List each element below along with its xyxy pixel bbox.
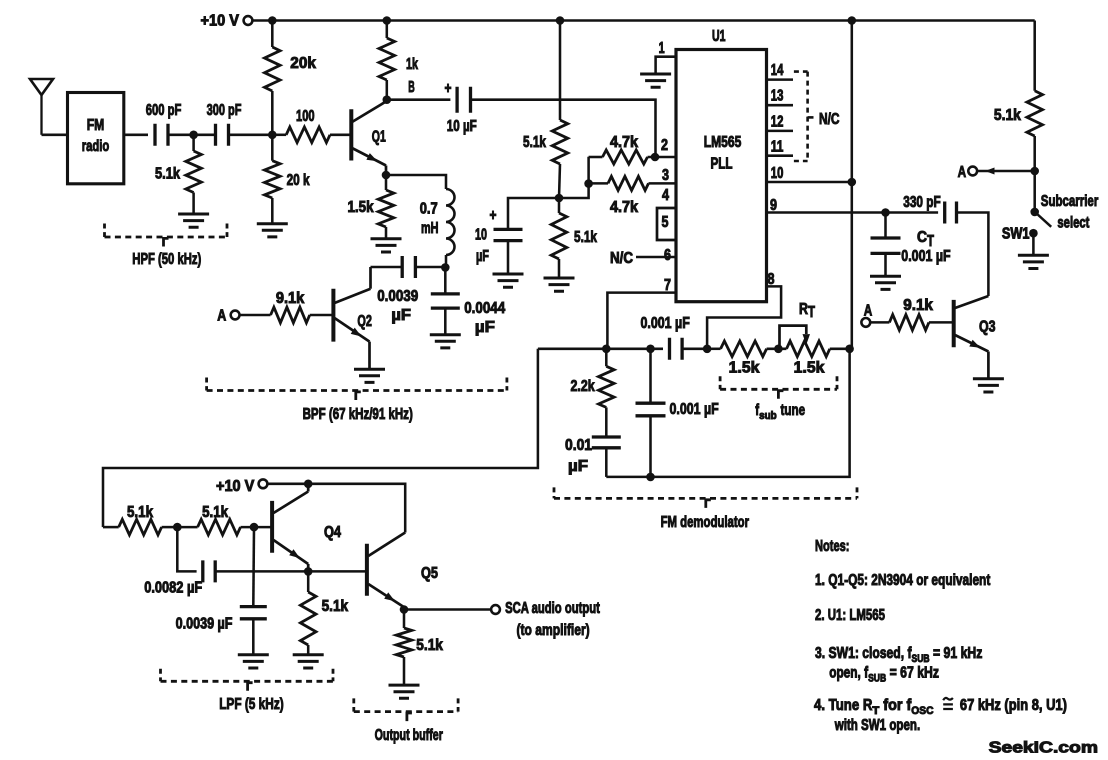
svg-text:5.1k: 5.1k [322, 598, 349, 615]
svg-text:5.1k: 5.1k [994, 107, 1021, 124]
wire node B to C10uF [387, 98, 451, 101]
svg-text:7: 7 [664, 277, 671, 294]
label subcarrier select [1041, 193, 1099, 232]
pin 11 [767, 139, 794, 156]
svg-text:T: T [808, 304, 815, 321]
svg-text:5: 5 [662, 214, 669, 231]
svg-text:0.001 µF: 0.001 µF [901, 248, 950, 265]
svg-text:Subcarrier: Subcarrier [1041, 193, 1099, 210]
op-amp U1 LM565 box [676, 28, 767, 302]
wire emitter row to inductor [386, 175, 446, 189]
resistor 5.1k Q4 emitter [300, 571, 348, 654]
terminal A Q3 [861, 303, 872, 327]
wire antenna to FM radio [42, 134, 68, 137]
resistor 2.2k [571, 349, 615, 437]
svg-text:4. Tune RT for fOSC: 4. Tune RT for fOSC [814, 697, 934, 717]
svg-text:2.2k: 2.2k [571, 378, 596, 395]
wire demod cap to pin8 node [682, 348, 707, 351]
junction pin8 node [703, 345, 712, 354]
svg-text:1k: 1k [406, 56, 418, 73]
svg-text:1.5k: 1.5k [729, 360, 760, 377]
svg-text:5.1k: 5.1k [155, 166, 180, 183]
svg-text:9.1k: 9.1k [276, 290, 305, 307]
svg-text:radio: radio [82, 138, 110, 155]
junction LPF node1 [173, 523, 182, 532]
wire divider to 4.7k pair [559, 157, 589, 198]
svg-text:SeekIC.com: SeekIC.com [989, 740, 1098, 757]
svg-text:0.0039: 0.0039 [377, 288, 418, 305]
svg-text:67 kHz (pin 8, U1): 67 kHz (pin 8, U1) [960, 697, 1067, 714]
svg-text:3: 3 [662, 167, 669, 184]
svg-text:9: 9 [770, 197, 777, 214]
ground Q3 [973, 379, 1004, 392]
svg-text:Q5: Q5 [421, 565, 438, 582]
svg-text:10: 10 [771, 165, 784, 182]
svg-text:4.7k: 4.7k [610, 134, 638, 151]
svg-text:Q4: Q4 [324, 524, 341, 541]
capacitor 0.0039 uF BPF [377, 256, 445, 324]
wire 330pF to Q3 collector [957, 213, 989, 297]
svg-text:13: 13 [771, 88, 784, 105]
svg-text:µF: µF [475, 319, 495, 336]
svg-text:0.7: 0.7 [420, 201, 438, 218]
pin 12 [767, 113, 794, 131]
wire C300pF to node2 [229, 134, 273, 137]
node junction BPF [441, 263, 450, 272]
svg-text:SCA audio output: SCA audio output [505, 600, 600, 617]
transistor Q5 [367, 533, 438, 610]
svg-text:with SW1 open.: with SW1 open. [834, 717, 920, 734]
svg-text:Q2: Q2 [357, 313, 372, 330]
svg-text:N/C: N/C [819, 111, 840, 128]
capacitor CT 0.001 uF [871, 213, 951, 277]
svg-text:9.1k: 9.1k [903, 297, 933, 314]
N/C bracket pins 11-14 [794, 72, 840, 161]
svg-text:BPF (67 kHz/91 kHz): BPF (67 kHz/91 kHz) [303, 406, 413, 423]
svg-text:µF: µF [391, 307, 411, 324]
svg-text:3. SW1: closed, fSUB = 91 kHz: 3. SW1: closed, fSUB = 91 kHz [815, 645, 983, 665]
resistor 5.1k output [396, 610, 443, 686]
resistor 5.1k subcarrier [994, 21, 1043, 172]
resistor 4.7k pin2 [589, 134, 676, 164]
ground 0.0044uF [430, 335, 461, 348]
svg-text:1.5k: 1.5k [348, 199, 374, 216]
wire demod feedback to LPF [103, 349, 538, 527]
ground bypass cap [493, 274, 524, 287]
svg-text:100: 100 [296, 108, 315, 125]
svg-text:B: B [408, 79, 415, 96]
wire +10V LPF rail [267, 484, 405, 533]
resistor 1k [379, 21, 418, 100]
fsub tune bracket [720, 376, 837, 422]
junction pin9 CT [881, 208, 890, 217]
antenna [30, 79, 53, 135]
resistor 20 k lower [265, 135, 310, 224]
pin 13 [767, 88, 794, 106]
svg-text:5.1k: 5.1k [202, 504, 228, 521]
wire Q5 emitter to output [404, 608, 491, 611]
switch SW1 contact upper [1030, 208, 1039, 217]
svg-text:20k: 20k [290, 55, 316, 72]
node junction divider [555, 194, 564, 203]
svg-text:µF: µF [568, 458, 588, 475]
svg-text:(to amplifier): (to amplifier) [517, 622, 590, 639]
svg-text:10 µF: 10 µF [447, 118, 477, 135]
ground pin 1 [640, 74, 671, 87]
junction demod cap [646, 345, 655, 354]
svg-text:R: R [799, 301, 808, 318]
pin 10 [767, 165, 852, 182]
svg-text:20 k: 20 k [287, 172, 310, 189]
svg-text:4.7k: 4.7k [610, 199, 638, 216]
svg-text:Q1: Q1 [372, 129, 386, 146]
junction Q4 collector [304, 480, 313, 489]
ground 0.0039 LPF [238, 655, 269, 668]
wire FM radio to C 600pF [124, 134, 148, 137]
junction demod pin7 [602, 345, 611, 354]
svg-text:1.5k: 1.5k [794, 360, 825, 377]
node junction pin2 [651, 153, 660, 162]
resistor 5.1k divider bottom [551, 198, 597, 278]
svg-text:8: 8 [768, 271, 775, 288]
capacitor 0.001 uF series [641, 315, 690, 360]
resistor 1.5k [348, 175, 394, 239]
svg-text:tune: tune [781, 402, 806, 419]
junction rail-5.1k [556, 16, 565, 25]
svg-text:0.001 µF: 0.001 µF [670, 401, 719, 418]
wire divider to bypass cap [508, 198, 559, 230]
svg-text:fsub: fsub [755, 402, 777, 422]
capacitor 300 pF [207, 102, 242, 146]
resistor 5.1k LPF second [177, 504, 272, 535]
svg-text:Notes:: Notes: [815, 538, 850, 555]
capacitor 0.01 uF [565, 437, 621, 477]
wire C10uF to pin2 corner [471, 100, 656, 157]
potentiometer RT 1.5k [780, 301, 850, 377]
svg-text:14: 14 [771, 62, 784, 79]
resistor 9.1k Q2 [240, 290, 334, 323]
node B [383, 79, 415, 104]
node junction Q1 emitter [382, 171, 391, 180]
svg-text:FM: FM [87, 117, 105, 134]
wire +10V rail [252, 19, 1034, 22]
capacitor 0.0082 uF [144, 527, 215, 597]
ground 20k [257, 224, 288, 237]
svg-text:1. Q1-Q5: 2N3904 or equivalent: 1. Q1-Q5: 2N3904 or equivalent [815, 572, 990, 589]
resistor 5.1k input shunt [155, 135, 201, 214]
svg-text:5.1k: 5.1k [127, 504, 153, 521]
terminal SCA output [491, 600, 600, 639]
junction LPF node2 [250, 523, 259, 532]
terminal A subcarrier [958, 164, 978, 181]
inductor 0.7 mH [420, 189, 455, 267]
svg-text:0.01: 0.01 [565, 437, 592, 454]
wire C600pF to node [168, 134, 215, 137]
svg-text:0.001 µF: 0.001 µF [641, 315, 690, 332]
svg-text:10: 10 [475, 227, 487, 244]
transistor Q4 [272, 484, 341, 572]
pin 7 [607, 277, 676, 349]
capacitor 0.0039 uF LPF [176, 527, 267, 655]
pin 8 [707, 271, 781, 349]
junction Q5 emitter [400, 605, 409, 614]
wire switch upper [1033, 171, 1036, 212]
svg-text:U1: U1 [712, 28, 726, 45]
svg-text:4: 4 [662, 187, 669, 204]
node junction 20k-100 [268, 131, 277, 140]
svg-text:C: C [917, 229, 927, 246]
svg-text:select: select [1057, 215, 1089, 232]
+10V terminal LPF [216, 478, 267, 495]
ground 5.1k Q4 [293, 655, 324, 668]
ground Q2 [354, 369, 385, 382]
junction RT wiper [774, 345, 783, 354]
svg-text:600 pF: 600 pF [146, 102, 182, 119]
svg-text:11: 11 [771, 139, 784, 156]
junction bottom shunt cap [646, 473, 655, 482]
svg-text:Output buffer: Output buffer [375, 727, 443, 744]
ground SW1 [1018, 255, 1049, 268]
wire demod node row [538, 348, 663, 351]
junction RT right [845, 345, 854, 354]
svg-text:6: 6 [664, 247, 671, 264]
junction rail-pin10 [848, 16, 857, 25]
junction rail-1k [383, 16, 392, 25]
ground CT [870, 276, 901, 289]
svg-text:0.0044: 0.0044 [464, 300, 505, 317]
svg-text:5.1k: 5.1k [523, 134, 546, 151]
transistor Q3 [954, 296, 996, 379]
FM radio box [68, 93, 124, 184]
ground output [389, 685, 420, 698]
capacitor 600 pF [146, 102, 182, 146]
capacitor 0.001 uF shunt [636, 349, 719, 477]
svg-text:+: + [445, 80, 452, 97]
svg-text:N/C: N/C [610, 250, 633, 267]
svg-text:SW1: SW1 [1002, 226, 1030, 243]
terminal A Q2 [217, 308, 239, 325]
+10V terminal [201, 13, 253, 30]
junction pin10 rail [848, 178, 857, 187]
svg-text:0.0039 µF: 0.0039 µF [176, 616, 233, 633]
svg-text:LM565: LM565 [704, 134, 742, 151]
pin 6 N/C [610, 247, 676, 267]
svg-text:A: A [864, 303, 873, 320]
svg-text:HPF (50 kHz): HPF (50 kHz) [132, 251, 201, 268]
svg-text:2: 2 [661, 137, 668, 154]
node junction 4.7k [584, 179, 593, 188]
capacitor 0.0044 uF [431, 267, 506, 336]
ground divider [544, 278, 575, 291]
svg-text:12: 12 [771, 113, 784, 130]
svg-text:300 pF: 300 pF [207, 102, 242, 119]
switch SW1 contact lower [1002, 226, 1038, 256]
resistor 9.1k Q3 [870, 297, 954, 330]
approx-equal symbol note 4 [943, 698, 953, 709]
ground input 5.1k [178, 214, 209, 227]
svg-text:+10 V: +10 V [216, 478, 255, 495]
svg-text:1: 1 [659, 40, 665, 57]
junction A switch [1030, 167, 1039, 176]
wire Q2 collector to cap [371, 266, 403, 269]
wire rail down right [851, 21, 854, 349]
transistor Q1 [351, 101, 387, 175]
resistor 5.1k LPF first [103, 504, 177, 535]
resistor 1.5k left [707, 341, 786, 377]
svg-text:A: A [217, 308, 226, 325]
pin 1 [656, 40, 676, 74]
capacitor 330 pF [903, 194, 956, 224]
capacitor 10 uF bypass [475, 207, 523, 274]
svg-text:+: + [490, 207, 497, 224]
svg-text:330 pF: 330 pF [903, 194, 940, 211]
junction rail-20k [268, 16, 277, 25]
svg-text:FM demodulator: FM demodulator [661, 514, 749, 531]
junction Q4 emitter [304, 567, 313, 576]
wire 0.0082 to Q5 base [215, 570, 367, 573]
svg-text:µF: µF [476, 248, 489, 265]
FM demodulator bracket [554, 487, 857, 531]
svg-text:PLL: PLL [711, 156, 733, 173]
resistor 100 [272, 108, 351, 143]
svg-text:0.0082 µF: 0.0082 µF [144, 580, 202, 597]
svg-text:Q3: Q3 [979, 319, 996, 336]
HPF bracket [105, 224, 228, 269]
svg-text:+10 V: +10 V [201, 13, 240, 30]
BPF bracket [207, 378, 507, 424]
pin 9 [767, 197, 939, 214]
ground 1.5k [371, 239, 402, 252]
Output buffer bracket [354, 698, 458, 744]
resistor 20k upper [265, 21, 317, 135]
resistor 4.7k pin3 [589, 176, 676, 216]
svg-text:open, fSUB = 67 kHz: open, fSUB = 67 kHz [829, 665, 939, 685]
svg-text:mH: mH [421, 220, 439, 237]
svg-text:2. U1: LM565: 2. U1: LM565 [815, 607, 885, 624]
svg-text:A: A [958, 164, 967, 181]
svg-text:LPF (5 kHz): LPF (5 kHz) [219, 696, 284, 713]
pin 14 [767, 62, 794, 80]
resistor 5.1k divider top [523, 21, 568, 199]
pin 5 loop [657, 208, 676, 240]
capacitor 10 uF coupling [445, 80, 477, 135]
wire A to switch [977, 168, 1035, 175]
LPF bracket [161, 669, 334, 713]
wire demod bottom loop [606, 349, 849, 477]
svg-text:5.1k: 5.1k [416, 637, 443, 654]
node junction input [189, 131, 198, 140]
switch SW1 blade [1036, 213, 1051, 227]
transistor Q2 [333, 267, 372, 369]
svg-text:5.1k: 5.1k [574, 229, 597, 246]
